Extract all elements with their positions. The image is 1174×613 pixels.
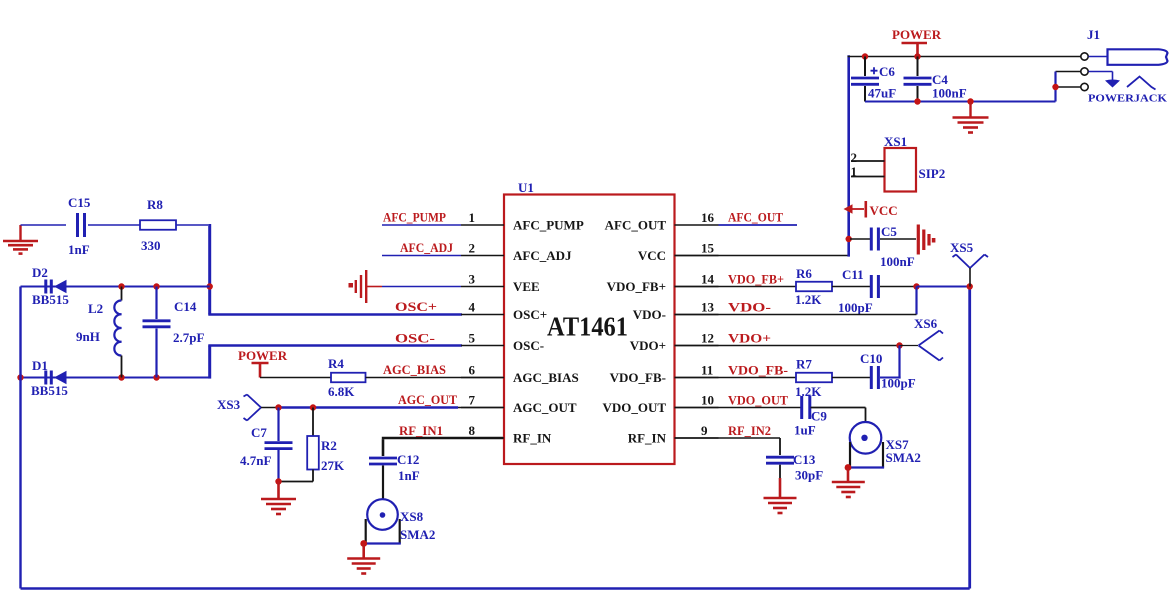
svg-text:10: 10: [701, 393, 714, 408]
wire RF_IN1: [382, 438, 504, 456]
svg-text:C10: C10: [860, 351, 882, 366]
svg-text:VEE: VEE: [513, 279, 540, 294]
capacitor C9 1uF: [794, 396, 827, 438]
svg-text:SMA2: SMA2: [886, 450, 921, 465]
wire IC pin stubs: [461, 225, 719, 438]
svg-text:VDO+: VDO+: [728, 331, 771, 346]
svg-text:U1: U1: [518, 180, 534, 195]
svg-text:VDO_OUT: VDO_OUT: [602, 400, 666, 415]
svg-text:C13: C13: [793, 452, 816, 467]
svg-text:AFC_ADJ: AFC_ADJ: [513, 248, 572, 263]
svg-text:RF_IN: RF_IN: [628, 431, 667, 446]
wire XS5 stem: [969, 268, 971, 287]
svg-text:16: 16: [701, 210, 715, 225]
svg-text:AGC_OUT: AGC_OUT: [513, 400, 577, 415]
net label RF_IN1: [399, 423, 443, 438]
inductor L2 9nH: [76, 287, 122, 378]
wire C9 to XS7: [811, 408, 866, 423]
ground GND at C15 left: [3, 225, 38, 254]
svg-text:XS6: XS6: [914, 316, 938, 331]
net label AGC_BIAS: [383, 362, 446, 377]
svg-text:VDO_FB-: VDO_FB-: [610, 370, 666, 385]
svg-text:OSC-: OSC-: [395, 331, 435, 346]
svg-text:VCC: VCC: [638, 248, 666, 263]
power port VCC: [844, 201, 898, 218]
op-amp U1 AT1461 (IC body): [504, 195, 675, 465]
wire R4 to pin 6: [366, 377, 505, 379]
wire left border: [19, 287, 21, 589]
capacitor C7 4.7nF: [240, 408, 293, 482]
ground at C7/R2: [261, 478, 296, 514]
svg-text:RF_IN2: RF_IN2: [728, 423, 771, 438]
wire OSC+ run: [208, 313, 462, 316]
wire C12 to XS8: [382, 466, 384, 500]
svg-text:AFC_OUT: AFC_OUT: [605, 218, 667, 233]
wire AGC_OUT run: [275, 404, 458, 410]
resistor R8: [140, 197, 208, 253]
svg-text:C11: C11: [842, 267, 864, 282]
resistor R2 27K: [279, 408, 346, 482]
svg-text:OSC+: OSC+: [395, 299, 437, 314]
svg-text:47uF: 47uF: [868, 86, 896, 101]
ground at C13: [764, 465, 797, 513]
wire bottom power rail: [865, 98, 1056, 104]
wire VCC pin15 to vertical: [675, 255, 849, 257]
wire R8 to OSC+ (vertical): [208, 224, 211, 315]
wire AGC_OUT stub: [458, 407, 504, 409]
varactor D2 BB515: [32, 265, 69, 307]
svg-text:J1: J1: [1087, 27, 1100, 42]
ground (bar style) at C5: [918, 225, 935, 255]
connector XS8 SMA2: [365, 499, 436, 543]
resistor R6 1.2K: [795, 266, 832, 307]
svg-text:C6: C6: [879, 64, 895, 79]
wire right border: [968, 287, 971, 589]
varactor D1 BB515: [31, 358, 68, 398]
capacitor C4 100nF: [904, 57, 967, 102]
wire POWER to R4: [260, 377, 331, 379]
svg-text:AFC_PUMP: AFC_PUMP: [513, 218, 584, 233]
svg-text:R6: R6: [796, 266, 812, 281]
connector XS7 SMA2: [849, 422, 921, 468]
power port POWER (left): [238, 348, 288, 378]
net label VDO-: [728, 300, 771, 315]
svg-text:D2: D2: [32, 265, 48, 280]
svg-text:VDO+: VDO+: [630, 338, 666, 353]
svg-text:C14: C14: [174, 299, 197, 314]
net label VDO+: [728, 331, 771, 346]
svg-text:C7: C7: [251, 425, 267, 440]
svg-text:RF_IN1: RF_IN1: [399, 423, 443, 438]
svg-text:100pF: 100pF: [838, 300, 873, 315]
svg-text:12: 12: [701, 331, 714, 346]
svg-text:POWER: POWER: [892, 27, 942, 42]
svg-text:C15: C15: [68, 195, 91, 210]
capacitor C5 100nF: [846, 224, 917, 269]
svg-text:11: 11: [701, 363, 713, 378]
svg-text:XS3: XS3: [217, 397, 241, 412]
svg-text:C12: C12: [397, 452, 419, 467]
svg-text:9: 9: [701, 423, 708, 438]
net label RF_IN2: [728, 423, 771, 438]
svg-text:7: 7: [469, 393, 476, 408]
antenna XS6: [914, 316, 943, 361]
wire VDO_FB- to R7: [675, 377, 797, 379]
svg-text:4.7nF: 4.7nF: [240, 453, 271, 468]
wire D2 row: [21, 283, 210, 289]
svg-text:1: 1: [469, 210, 476, 225]
svg-text:R7: R7: [796, 357, 812, 372]
wire VDO+: [675, 342, 919, 348]
wire VDO_OUT to C9: [675, 407, 801, 409]
svg-text:1uF: 1uF: [794, 423, 816, 438]
svg-text:POWERJACK: POWERJACK: [1088, 93, 1167, 105]
capacitor C15: [68, 195, 140, 257]
svg-text:14: 14: [701, 272, 715, 287]
net label OSC-: [395, 331, 435, 346]
wire J1 pins 2/3 to rail: [1052, 72, 1081, 102]
wire VDO- vertical: [915, 287, 917, 315]
net label AFC_ADJ: [400, 240, 453, 255]
net label VDO_FB+: [728, 272, 784, 287]
wire VDO+ to C10 vertical: [898, 346, 900, 379]
svg-text:VDO_OUT: VDO_OUT: [728, 393, 788, 408]
svg-text:5: 5: [469, 331, 476, 346]
svg-text:3: 3: [469, 272, 476, 287]
capacitor C6 47uF: [851, 57, 896, 102]
svg-text:C9: C9: [811, 409, 827, 424]
wire C11 to XS5 node: [880, 283, 973, 289]
svg-text:1nF: 1nF: [398, 468, 420, 483]
pin numbers: [469, 210, 715, 438]
svg-text:1nF: 1nF: [68, 242, 90, 257]
svg-text:100nF: 100nF: [880, 254, 915, 269]
ground at VEE pin 3: [349, 270, 383, 303]
svg-text:VDO-: VDO-: [728, 300, 771, 315]
svg-text:2: 2: [469, 241, 476, 256]
svg-text:AGC_OUT: AGC_OUT: [398, 392, 457, 407]
svg-text:9nH: 9nH: [76, 329, 100, 344]
net label OSC+: [395, 299, 437, 314]
svg-text:XS5: XS5: [950, 240, 974, 255]
svg-text:SMA2: SMA2: [400, 527, 435, 542]
ground at XS7: [832, 464, 865, 497]
net label VDO_FB-: [728, 363, 788, 378]
wire VDO-: [675, 314, 917, 316]
ground at XS8: [347, 540, 380, 573]
wire bottom border: [21, 587, 970, 589]
svg-text:BB515: BB515: [32, 292, 69, 307]
svg-text:POWER: POWER: [238, 348, 288, 363]
svg-text:VDO-: VDO-: [633, 307, 666, 322]
svg-text:VDO_FB+: VDO_FB+: [728, 272, 784, 287]
wire RF_IN2: [675, 438, 781, 455]
capacitor C13 30pF: [766, 452, 823, 483]
node at D2 row x210: [207, 283, 213, 289]
svg-text:330: 330: [141, 238, 161, 253]
svg-text:L2: L2: [88, 301, 103, 316]
wire ground to C15: [21, 224, 67, 226]
wire XS3 to AGC_OUT run: [261, 407, 279, 409]
svg-text:AGC_BIAS: AGC_BIAS: [513, 370, 579, 385]
svg-text:VDO_FB+: VDO_FB+: [607, 279, 666, 294]
svg-text:AGC_BIAS: AGC_BIAS: [383, 362, 446, 377]
svg-text:BB515: BB515: [31, 383, 68, 398]
svg-text:OSC-: OSC-: [513, 338, 544, 353]
wire VCC vertical: [847, 55, 850, 256]
wire R6 to C11: [832, 286, 870, 288]
svg-text:AFC_PUMP: AFC_PUMP: [383, 210, 446, 225]
wire top power rail: [848, 53, 1082, 59]
svg-text:4: 4: [469, 300, 476, 315]
svg-text:SIP2: SIP2: [919, 166, 946, 181]
svg-text:6.8K: 6.8K: [328, 384, 355, 399]
svg-text:AT1461: AT1461: [547, 312, 628, 342]
wire AFC_ADJ: [382, 255, 461, 257]
svg-text:R4: R4: [328, 356, 344, 371]
ground below C4: [953, 102, 989, 133]
connector XS1 SIP2: [851, 134, 946, 192]
svg-text:R8: R8: [147, 197, 163, 212]
svg-text:R2: R2: [321, 438, 337, 453]
capacitor C11 100pF: [838, 267, 878, 315]
wire D1 row: [17, 374, 209, 380]
net label AFC_OUT: [728, 210, 783, 225]
label U1: [518, 180, 534, 195]
wire C10 to VDO+ node: [880, 377, 901, 379]
svg-text:C5: C5: [881, 224, 897, 239]
wire VDO_FB+ to R6: [675, 286, 797, 288]
svg-text:15: 15: [701, 241, 715, 256]
wire R7 to C10: [832, 377, 870, 379]
antenna XS3: [217, 395, 261, 421]
svg-text:2: 2: [851, 150, 858, 165]
svg-text:6: 6: [469, 363, 476, 378]
svg-text:13: 13: [701, 300, 715, 315]
wire AFC_PUMP: [382, 224, 461, 226]
svg-text:2.7pF: 2.7pF: [173, 330, 204, 345]
svg-text:XS8: XS8: [400, 509, 424, 524]
svg-text:100nF: 100nF: [932, 86, 967, 101]
svg-text:RF_IN: RF_IN: [513, 431, 552, 446]
wire OSC- vertical: [208, 346, 211, 379]
capacitor C14 2.7pF: [143, 287, 205, 378]
capacitor C12 1nF: [369, 452, 420, 483]
net label AGC_OUT: [398, 392, 457, 407]
svg-text:30pF: 30pF: [795, 468, 823, 483]
svg-text:VCC: VCC: [870, 203, 898, 218]
net label AFC_PUMP: [383, 210, 446, 225]
svg-text:D1: D1: [32, 358, 48, 373]
power port POWER (top): [892, 27, 942, 57]
svg-text:XS1: XS1: [884, 134, 907, 149]
resistor R4 6.8K: [328, 356, 366, 399]
antenna XS5: [950, 240, 988, 268]
svg-text:1: 1: [851, 164, 858, 179]
wire AFC_OUT: [719, 224, 798, 226]
svg-text:VDO_FB-: VDO_FB-: [728, 363, 788, 378]
wire OSC- run: [208, 344, 462, 347]
net label VDO_OUT: [728, 393, 788, 408]
svg-text:1.2K: 1.2K: [795, 292, 822, 307]
connector J1 POWERJACK: [1081, 27, 1168, 105]
capacitor C10 100pF: [860, 351, 916, 391]
svg-text:8: 8: [469, 423, 476, 438]
resistor R7 1.2K: [795, 357, 832, 400]
svg-text:OSC+: OSC+: [513, 307, 547, 322]
svg-text:27K: 27K: [321, 458, 345, 473]
svg-text:AFC_ADJ: AFC_ADJ: [400, 240, 453, 255]
svg-text:AFC_OUT: AFC_OUT: [728, 210, 783, 225]
wire VEE: [382, 286, 461, 288]
